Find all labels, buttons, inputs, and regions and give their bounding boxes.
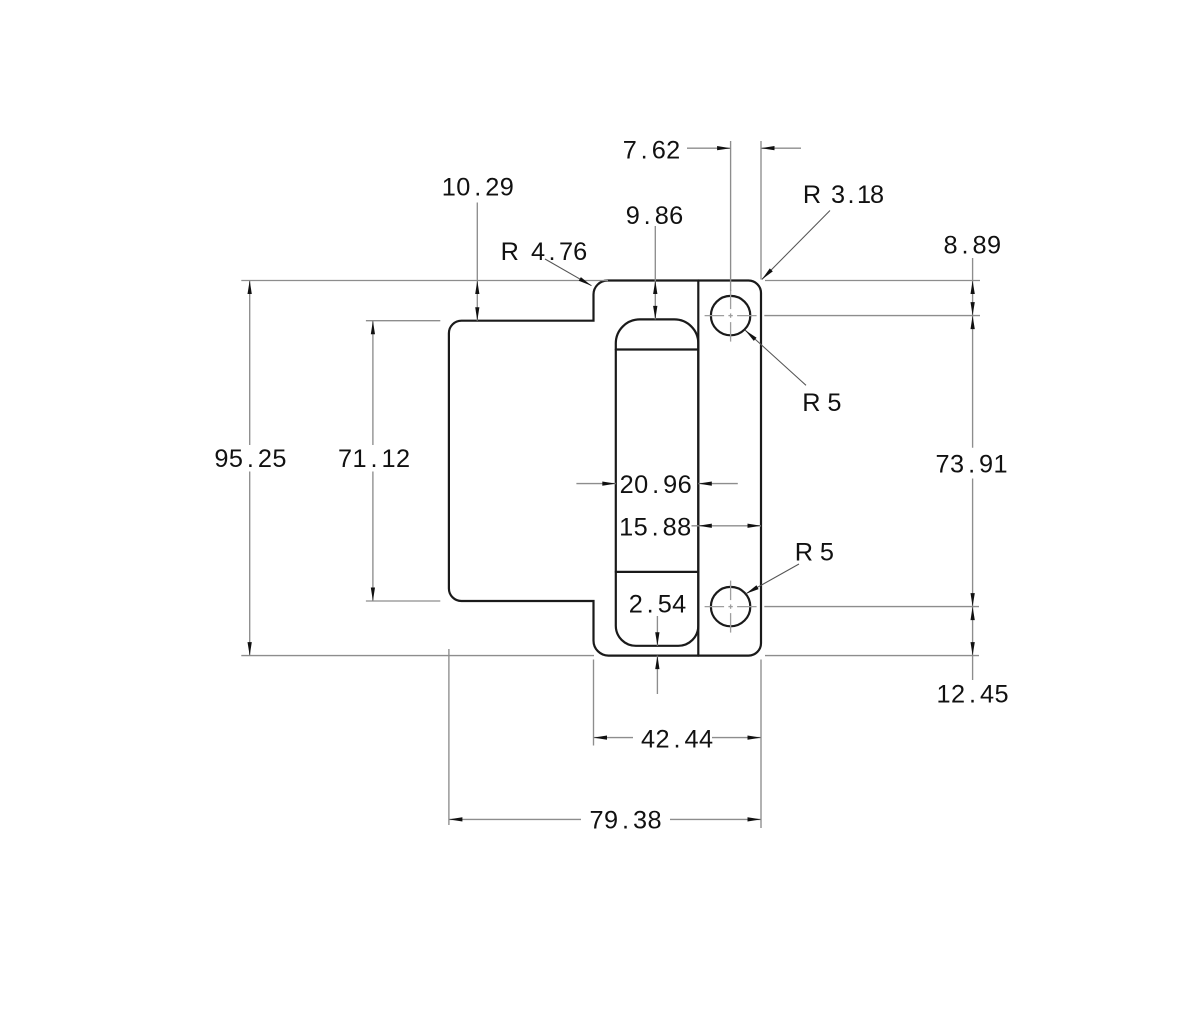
dim line 42.44 right: [712, 737, 761, 739]
bottom hole horizontal centerline: [705, 606, 725, 608]
top hole vertical centerline: [730, 290, 732, 310]
svg-text:73.91: 73.91: [936, 451, 1008, 479]
top hole horizontal centerline: [705, 315, 725, 317]
extension line right edge top: [760, 141, 762, 280]
dim line 95.25 upper: [249, 281, 251, 446]
svg-text:95.25: 95.25: [214, 445, 286, 473]
dim line 12.45: [972, 607, 974, 680]
leader R 5 bottom: [746, 564, 799, 594]
dim line 79.38 left: [449, 818, 581, 820]
arrow 10.29 up: [475, 281, 479, 295]
dim line 7.62 left segment: [687, 147, 731, 149]
part outline: [449, 281, 761, 656]
dim line 9.86: [654, 226, 656, 319]
extension line bottom edge left: [241, 655, 594, 657]
arrow R 5 top: [745, 330, 756, 341]
arrow 71.12 down: [371, 588, 375, 602]
arrow 73.91 down: [971, 593, 975, 607]
arrow 2.54 up: [655, 656, 659, 670]
dim line 42.44 left: [594, 737, 634, 739]
dim line 20.96 right: [698, 483, 738, 485]
svg-text:R5: R5: [795, 539, 834, 567]
extension line hole center vertical: [730, 141, 732, 291]
dim line 95.25 lower: [249, 472, 251, 656]
svg-text:R3.18: R3.18: [803, 181, 884, 209]
extension line top edge right: [765, 280, 980, 282]
arrow R 3.18: [762, 268, 773, 279]
slot lower edge line: [616, 571, 699, 573]
arrow R 4.76: [579, 277, 592, 286]
svg-text:79.38: 79.38: [589, 807, 661, 835]
extension line bottom edge right: [765, 655, 979, 657]
svg-text:15.88: 15.88: [619, 514, 691, 542]
arrow 9.86 up: [653, 281, 657, 295]
dim line 8.89: [972, 258, 974, 316]
arrow 12.45 up: [971, 607, 975, 621]
dim line 71.12 lower: [372, 472, 374, 602]
arrow 12.45 down: [971, 642, 975, 656]
slot upper edge line: [616, 348, 699, 350]
arrow 7.62 left: [717, 146, 731, 150]
arrow 95.25 up: [248, 281, 252, 295]
bottom hole vertical centerline: [730, 581, 732, 601]
svg-text:10.29: 10.29: [442, 174, 514, 202]
arrow 2.54 down: [655, 632, 659, 646]
arrow 20.96 right: [698, 482, 712, 486]
dim line 79.38 right: [670, 818, 761, 820]
dim line 2.54 lower: [656, 656, 658, 694]
extension line bottom hole center: [764, 606, 979, 608]
screw hole bottom R5: [711, 587, 750, 626]
arrow 42.44 right: [748, 736, 762, 740]
arrow 20.96 left: [602, 482, 616, 486]
svg-text:7.62: 7.62: [623, 136, 680, 164]
arrow 10.29 down: [475, 307, 479, 321]
arrow 79.38 right: [748, 817, 762, 821]
arrow 9.86 down: [653, 306, 657, 320]
svg-text:2.54: 2.54: [629, 591, 686, 619]
dim line 73.91 lower: [972, 479, 974, 607]
screw hole top R5: [711, 296, 750, 335]
svg-text:R5: R5: [802, 389, 841, 417]
extension line top hole center: [764, 315, 980, 317]
svg-text:71.12: 71.12: [338, 445, 410, 473]
dim line 2.54 upper: [656, 616, 658, 646]
arrow 15.88 left: [698, 524, 712, 528]
extension line left-section top: [366, 320, 440, 322]
dim line 15.88: [692, 525, 762, 527]
latch slot opening: [616, 319, 699, 645]
svg-text:8.89: 8.89: [943, 231, 1001, 259]
dim line 73.91 upper: [972, 316, 974, 448]
arrow 42.44 left: [594, 736, 608, 740]
dim line 10.29: [476, 203, 478, 321]
bend line: [697, 281, 699, 656]
svg-text:12.45: 12.45: [936, 681, 1008, 709]
arrow 15.88 right: [748, 524, 762, 528]
svg-text:20.96: 20.96: [620, 471, 692, 499]
svg-text:R4.76: R4.76: [501, 238, 588, 266]
extension line left-section bottom: [366, 600, 440, 602]
arrow 71.12 up: [371, 321, 375, 335]
arrow R 5 bottom: [746, 585, 759, 594]
dim line 7.62 right segment: [761, 147, 801, 149]
leader R 5 top: [745, 330, 806, 385]
extension line riser bottom: [593, 660, 595, 746]
arrow 7.62 right: [761, 146, 775, 150]
arrow 8.89 down: [971, 302, 975, 316]
arrow 79.38 left: [449, 817, 463, 821]
extension line left edge bottom: [448, 649, 450, 825]
svg-text:9.86: 9.86: [626, 202, 683, 230]
leader R 4.76: [545, 259, 592, 286]
arrow 8.89 up: [971, 281, 975, 295]
dim line 71.12 upper: [372, 321, 374, 445]
extension line right edge bottom: [760, 660, 762, 829]
dim line 20.96 left: [576, 483, 615, 485]
extension line top edge left: [241, 280, 608, 282]
leader R 3.18: [762, 211, 830, 280]
arrow 73.91 up: [971, 316, 975, 330]
arrow 95.25 down: [248, 642, 252, 656]
svg-text:42.44: 42.44: [641, 726, 713, 754]
